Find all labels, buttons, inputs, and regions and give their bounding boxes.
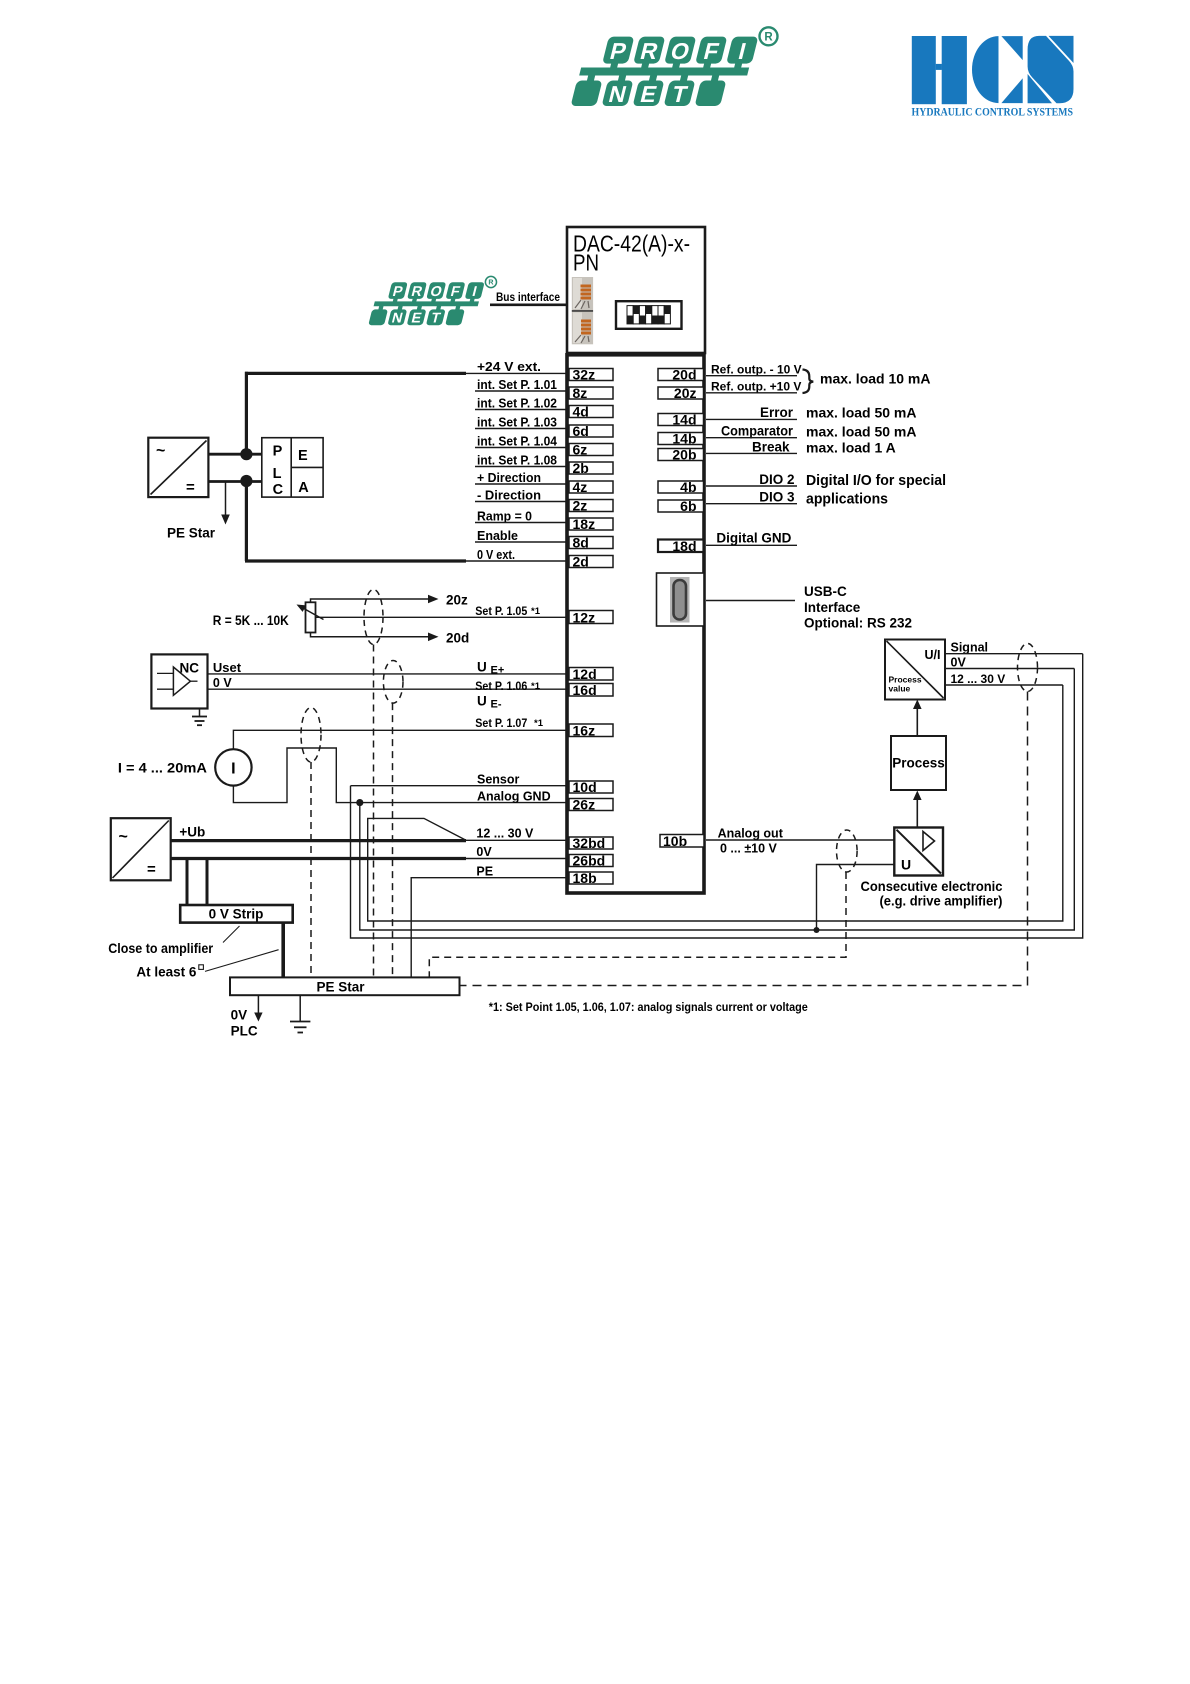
- label At least 6 mm2: [136, 950, 278, 980]
- label 0V PLC: [231, 1008, 258, 1039]
- svg-text:int. Set P. 1.08: int. Set P. 1.08: [477, 452, 557, 467]
- potentiometer R = 5K ... 10K: [297, 602, 324, 632]
- svg-text:8z: 8z: [573, 385, 588, 401]
- shield ellipse I cable: [301, 708, 321, 762]
- svg-text:26z: 26z: [573, 797, 596, 813]
- svg-text:6z: 6z: [573, 442, 588, 458]
- svg-text:USB-C: USB-C: [804, 584, 847, 599]
- label DIO 3: [706, 490, 888, 508]
- svg-text:PLC: PLC: [231, 1024, 258, 1039]
- svg-text:PE: PE: [476, 864, 493, 878]
- wire 0V to 26bd: [466, 858, 567, 860]
- svg-text:+24 V ext.: +24 V ext.: [477, 359, 541, 374]
- svg-text:*1: Set Point 1.05, 1.06, 1.07: *1: Set Point 1.05, 1.06, 1.07: analog s…: [489, 1002, 808, 1014]
- svg-text:max. load 1 A: max. load 1 A: [806, 440, 896, 456]
- svg-text:At least 6: At least 6: [136, 964, 197, 979]
- label Ramp = 0: [475, 508, 567, 523]
- label + Direction: [475, 470, 567, 485]
- Process box: [891, 736, 946, 790]
- pin 20b: [658, 447, 704, 463]
- shield drain dashed (I cable): [310, 762, 312, 977]
- pin 16d: [569, 682, 613, 698]
- shield ellipse pot cable: [364, 590, 383, 645]
- svg-text:E: E: [298, 448, 308, 464]
- arrow amplifier to Process: [913, 791, 922, 828]
- module DAC body box: [567, 355, 704, 893]
- wire analog out 10b to drive amplifier: [706, 839, 894, 841]
- label int. Set P. 1.03: [475, 414, 567, 429]
- U/I converter box: [885, 640, 945, 700]
- svg-text:32z: 32z: [573, 367, 596, 383]
- svg-text:Enable: Enable: [477, 528, 518, 543]
- svg-text:0V: 0V: [231, 1008, 248, 1023]
- power supply AC/DC bottom: [111, 818, 171, 880]
- svg-text:0V: 0V: [951, 655, 967, 669]
- wire USB-C interface: [706, 600, 795, 602]
- label Ref. outp. - 10 V: [706, 362, 802, 376]
- pin 8z: [569, 385, 613, 401]
- label - Direction: [475, 487, 567, 502]
- pin 26z: [569, 797, 613, 813]
- wire 0V ext vertical: [245, 482, 248, 562]
- svg-text:12d: 12d: [573, 666, 597, 682]
- svg-text:Digital I/O for special: Digital I/O for special: [806, 472, 946, 489]
- svg-text:Digital GND: Digital GND: [716, 531, 791, 546]
- svg-text:value: value: [889, 684, 911, 694]
- svg-text:Error: Error: [760, 405, 794, 420]
- svg-text:Comparator: Comparator: [721, 423, 794, 438]
- wire I source to 16z: [233, 730, 567, 749]
- wire PE to 18b: [411, 878, 567, 977]
- svg-text:Analog out: Analog out: [718, 826, 784, 840]
- svg-text:A: A: [298, 480, 309, 496]
- wire U return to 0V loop: [817, 865, 895, 931]
- DIP switch: [616, 301, 682, 329]
- pin 20d: [658, 367, 704, 383]
- wire pot bottom to 20d arrow: [311, 631, 470, 646]
- label DIO 2: [706, 472, 946, 489]
- label int. Set P. 1.08: [475, 452, 567, 467]
- svg-text:Analog GND: Analog GND: [477, 789, 551, 803]
- svg-text:12 ... 30 V: 12 ... 30 V: [951, 672, 1006, 686]
- svg-text:Signal: Signal: [951, 641, 989, 655]
- svg-text:0 V Strip: 0 V Strip: [209, 907, 264, 922]
- svg-text:PN: PN: [573, 250, 599, 276]
- svg-text:26bd: 26bd: [573, 853, 606, 869]
- wire PS to PLC upper: [208, 453, 261, 456]
- svg-text:20z: 20z: [446, 593, 468, 608]
- wire Sensor 10d: [351, 785, 568, 787]
- svg-text:2z: 2z: [573, 498, 588, 514]
- svg-text:10d: 10d: [573, 779, 597, 795]
- wire pot top to 20z arrow: [311, 593, 469, 608]
- svg-text:6d: 6d: [573, 423, 589, 439]
- svg-text:14b: 14b: [672, 431, 696, 447]
- svg-text:(e.g. drive amplifier): (e.g. drive amplifier): [880, 893, 1003, 909]
- wire PS to PLC lower: [208, 480, 261, 483]
- node junction Analog GND: [356, 799, 363, 806]
- PE Star bar: [230, 977, 460, 995]
- node junction lower: [240, 475, 252, 487]
- node junction upper: [240, 448, 252, 460]
- svg-text:DIO 3: DIO 3: [759, 490, 795, 505]
- pin 18d: [658, 538, 704, 554]
- svg-text:E+: E+: [491, 665, 505, 677]
- svg-text:18d: 18d: [672, 538, 696, 554]
- svg-text:20z: 20z: [674, 385, 697, 401]
- svg-text:C: C: [273, 482, 284, 498]
- ground PE arrow at PLC supply: [221, 481, 230, 525]
- pin 4z: [569, 479, 613, 495]
- svg-text:max. load 10 mA: max. load 10 mA: [820, 371, 931, 387]
- wire 0V thick: [171, 857, 466, 860]
- pin 6b: [658, 498, 704, 514]
- svg-text:16d: 16d: [573, 682, 597, 698]
- svg-text:PE Star: PE Star: [167, 526, 216, 541]
- svg-text:L: L: [273, 466, 282, 482]
- label Enable: [475, 528, 567, 543]
- svg-text:18z: 18z: [573, 516, 596, 532]
- svg-text:4b: 4b: [680, 479, 696, 495]
- svg-text:6b: 6b: [680, 498, 696, 514]
- svg-text:Ramp = 0: Ramp = 0: [477, 508, 532, 523]
- svg-text:HYDRAULIC CONTROL SYSTEMS: HYDRAULIC CONTROL SYSTEMS: [912, 107, 1074, 119]
- svg-text:8d: 8d: [573, 535, 589, 551]
- svg-text:+Ub: +Ub: [179, 824, 205, 839]
- svg-text:*1: *1: [531, 681, 541, 692]
- pin 2b: [569, 460, 613, 476]
- pin 2d: [569, 554, 613, 570]
- label Analog out / 0 ... ±10 V: [718, 826, 784, 855]
- label U E+: [477, 660, 504, 677]
- svg-text:- Direction: - Direction: [477, 487, 541, 502]
- svg-text:E-: E-: [491, 699, 502, 711]
- svg-text:4z: 4z: [573, 479, 588, 495]
- shield drain dashed (NC cable): [392, 703, 394, 977]
- svg-text:32bd: 32bd: [573, 835, 606, 851]
- svg-text:*1: *1: [534, 718, 544, 729]
- label Break: [706, 439, 896, 455]
- svg-text:NC: NC: [180, 660, 200, 675]
- pin 14d: [658, 412, 704, 428]
- wire I source bottom with hop to Analog GND: [233, 748, 567, 803]
- svg-text:U/I: U/I: [925, 648, 941, 662]
- command device NC box: [151, 654, 207, 708]
- svg-text:int. Set P. 1.02: int. Set P. 1.02: [477, 395, 557, 410]
- pin 26bd: [569, 853, 613, 869]
- pin 2z: [569, 498, 613, 514]
- svg-text:U: U: [901, 857, 911, 873]
- svg-text:int. Set P. 1.03: int. Set P. 1.03: [477, 414, 557, 429]
- pin 6d: [569, 423, 613, 439]
- pin 6z: [569, 442, 613, 458]
- svg-text:0 V: 0 V: [213, 676, 232, 690]
- svg-text:0 V ext.: 0 V ext.: [477, 547, 515, 562]
- ground below NC: [192, 709, 207, 726]
- wire analog gnd loop bottom (0V): [360, 669, 1075, 931]
- label U E-: [477, 694, 502, 711]
- label Set P. 1.06 *1: [475, 679, 540, 693]
- svg-text:Set P. 1.07: Set P. 1.07: [475, 716, 527, 730]
- label Set P. 1.07 *1: [475, 716, 543, 730]
- label Consecutive electronic: [861, 878, 1003, 909]
- logo PROFINET top: [570, 27, 777, 106]
- label Bus interface: [490, 292, 566, 305]
- svg-text:*1: *1: [531, 606, 541, 617]
- wire sensor loop bottom (signal): [351, 654, 1083, 938]
- svg-text:Process: Process: [892, 756, 945, 771]
- svg-text:Interface: Interface: [804, 600, 861, 615]
- svg-text:=: =: [147, 861, 156, 878]
- svg-text:~: ~: [119, 829, 128, 846]
- pin 32z: [569, 367, 613, 383]
- label int. Set P. 1.02: [475, 395, 567, 410]
- wire pot wiper to 12z: [316, 616, 568, 618]
- svg-text:20d: 20d: [446, 631, 469, 646]
- pin 4d: [569, 404, 613, 420]
- pin 4b: [658, 479, 704, 495]
- pin 16z: [569, 723, 613, 739]
- shield drain dashed (pot cable): [373, 645, 375, 978]
- pin 12d: [569, 666, 613, 682]
- svg-text:16z: 16z: [573, 723, 596, 739]
- PLC box: [262, 438, 323, 498]
- svg-text:=: =: [186, 479, 195, 496]
- logo PROFINET small (bus interface): [368, 276, 497, 326]
- wire +24V horizontal: [245, 372, 466, 375]
- USB-C connector: [657, 573, 705, 626]
- wire fork diagonal to supply loop: [368, 685, 1063, 921]
- wire 0V to 16d: [208, 688, 568, 690]
- label USB-C Interface Optional: RS 232: [804, 584, 912, 630]
- label Ref. outp. +10 V: [706, 379, 801, 393]
- svg-text:+ Direction: + Direction: [477, 470, 541, 485]
- wire Uset to 12d: [208, 673, 568, 675]
- arrow 0V PLC down: [254, 995, 262, 1021]
- svg-text:PE Star: PE Star: [316, 979, 365, 994]
- svg-text:0V: 0V: [476, 845, 492, 859]
- svg-text:U: U: [477, 660, 487, 675]
- svg-text:Break: Break: [752, 439, 790, 454]
- node junction U return / 0V loop: [814, 927, 820, 933]
- consecutive electronic box (drive amplifier): [894, 828, 943, 876]
- wire 0V strip drop 2: [206, 859, 209, 906]
- shield ellipse U/I cable: [1018, 644, 1038, 692]
- svg-text:I: I: [231, 760, 235, 777]
- wire +24V vertical: [245, 372, 248, 454]
- wire +Ub thick: [171, 839, 466, 842]
- pin 8d: [569, 535, 613, 551]
- wire 0V (U/I): [945, 668, 1074, 670]
- svg-text:20b: 20b: [672, 447, 696, 463]
- pin 10d: [569, 779, 613, 795]
- label Comparator: [706, 423, 917, 439]
- svg-text:DIO 2: DIO 2: [759, 472, 794, 487]
- svg-text:Ref. outp. - 10 V: Ref. outp. - 10 V: [711, 362, 802, 376]
- svg-text:12z: 12z: [573, 610, 596, 626]
- pin 18z: [569, 516, 613, 532]
- 0 V Strip bar: [180, 905, 293, 923]
- label Digital GND: [706, 531, 797, 546]
- arrow Process to U/I: [913, 700, 922, 737]
- bus connector photos: [572, 277, 593, 344]
- svg-text:2d: 2d: [573, 554, 589, 570]
- svg-text:14d: 14d: [672, 412, 696, 428]
- shield ellipse analog out cable: [837, 830, 858, 872]
- wire 12...30V (U/I): [945, 684, 1063, 686]
- svg-text:R = 5K ... 10K: R = 5K ... 10K: [213, 613, 289, 628]
- svg-text:applications: applications: [806, 491, 888, 508]
- svg-text:Set P. 1.05: Set P. 1.05: [475, 604, 527, 618]
- label Error: [706, 405, 917, 421]
- svg-text:Close to amplifier: Close to amplifier: [108, 941, 214, 956]
- svg-text:2b: 2b: [573, 460, 589, 476]
- ground symbol PE Star: [290, 995, 310, 1032]
- pin 32bd: [569, 835, 613, 851]
- svg-text:Sensor: Sensor: [477, 772, 520, 786]
- svg-text:Ref. outp. +10 V: Ref. outp. +10 V: [711, 379, 801, 393]
- svg-text:20d: 20d: [672, 367, 696, 383]
- svg-text:max. load 50 mA: max. load 50 mA: [806, 405, 917, 421]
- shield drain dashed (U/I cable): [460, 692, 1028, 986]
- label Close to amplifier: [108, 926, 239, 956]
- current source I: [215, 749, 251, 785]
- label 0 V ext.: [466, 547, 567, 562]
- wire 0V strip drop 1: [186, 859, 189, 906]
- brace max load 10 mA: [803, 370, 931, 394]
- svg-text:12 ... 30 V: 12 ... 30 V: [476, 826, 534, 840]
- svg-text:Set P. 1.06: Set P. 1.06: [475, 679, 527, 693]
- svg-text:int. Set P. 1.01: int. Set P. 1.01: [477, 377, 557, 392]
- svg-text:U: U: [477, 694, 487, 709]
- svg-text:I = 4 ... 20mA: I = 4 ... 20mA: [118, 761, 207, 776]
- wire Signal: [945, 653, 1083, 655]
- label +24 V ext.: [466, 359, 567, 374]
- wire 12...30V to 32bd: [466, 839, 567, 841]
- label int. Set P. 1.04: [475, 433, 567, 448]
- pin 14b: [658, 431, 704, 447]
- label int. Set P. 1.01: [475, 377, 567, 392]
- wire 0V ext horizontal: [245, 559, 466, 562]
- svg-text:P: P: [273, 444, 283, 460]
- svg-text:int. Set P. 1.04: int. Set P. 1.04: [477, 433, 558, 448]
- logo HCS: [912, 36, 1074, 119]
- shield drain dashed (analog out cable): [429, 872, 846, 977]
- svg-text:max. load 50 mA: max. load 50 mA: [806, 424, 917, 440]
- pin 18b: [569, 870, 613, 886]
- pin 10b: [660, 833, 704, 849]
- shield ellipse NC cable: [383, 661, 403, 704]
- svg-text:Bus interface: Bus interface: [496, 292, 560, 304]
- svg-text:~: ~: [156, 443, 165, 460]
- svg-text:0 ... ±10 V: 0 ... ±10 V: [720, 842, 778, 856]
- svg-text:Uset: Uset: [213, 660, 242, 675]
- power supply AC/DC top: [148, 438, 208, 497]
- svg-text:10b: 10b: [663, 833, 687, 849]
- svg-text:18b: 18b: [573, 870, 597, 886]
- svg-text:Optional: RS 232: Optional: RS 232: [804, 615, 912, 630]
- module DAC-42(A)-x-PN header box: [567, 227, 705, 353]
- label Set P. 1.05 *1: [475, 604, 540, 618]
- svg-text:4d: 4d: [573, 404, 589, 420]
- pin 20z: [658, 385, 704, 401]
- wire 0V strip to PE Star thick: [281, 923, 285, 977]
- pin 12z: [569, 610, 613, 626]
